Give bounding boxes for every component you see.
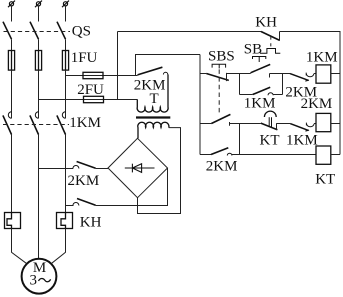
wire phase2 to fuse <box>38 39 40 50</box>
contactor 1KM main pole3 hook <box>62 112 65 118</box>
contact 2KM brake pole2 wire <box>66 205 74 207</box>
contact KH NC tick <box>279 32 281 41</box>
contact 1KM self-hold blade <box>253 87 271 94</box>
diode triangle <box>132 164 141 173</box>
wire self-hold right riser <box>282 74 284 95</box>
wire phase1 top stub <box>11 6 13 22</box>
coil 1KM box <box>316 65 331 83</box>
row A wire SB to interlock <box>270 73 291 75</box>
svg-text:3: 3 <box>30 273 38 289</box>
svg-text:1KM: 1KM <box>306 50 338 66</box>
fuse 1FU pole1 <box>8 51 14 71</box>
wire control top rail left segment <box>118 31 262 33</box>
wire motor lead 3 <box>52 229 66 264</box>
contact 2KM self-hold hook <box>227 153 232 155</box>
thermal relay KH element 1 box <box>5 213 21 229</box>
contact 2KM NC interlock foot <box>305 80 309 81</box>
wire phase1 fuse to 1KM <box>11 70 13 118</box>
transformer T secondary winding <box>138 122 169 138</box>
diode line <box>125 167 155 169</box>
terminal L1 <box>8 1 15 8</box>
button SBS NC blade <box>206 74 228 81</box>
wire to 1KM coil <box>314 73 316 75</box>
svg-text:2KM: 2KM <box>134 78 166 94</box>
thermal relay KH element 2 heater <box>61 213 66 229</box>
wire control riser to top <box>117 32 119 100</box>
contact 1KM NC interlock foot <box>305 130 309 131</box>
QS linkage dashed <box>4 31 71 33</box>
fuse 2FU lower <box>84 96 104 102</box>
button SB bump <box>260 49 280 54</box>
contact 2KM brake pole1 hook <box>73 166 79 169</box>
timer KT umbrella arc <box>264 111 276 117</box>
wire phase2 top stub <box>38 6 40 22</box>
switch QS pole 1 blade <box>3 22 12 40</box>
terminal L3 <box>62 1 69 8</box>
button SB actuator bar <box>253 57 266 60</box>
row B wire 2 <box>277 123 291 125</box>
row C stub <box>200 154 211 156</box>
contactor 1KM main pole2 blade <box>30 115 39 134</box>
contact 2KM NC interlock tick <box>305 73 307 76</box>
svg-text:1KM: 1KM <box>286 132 318 148</box>
contactor 1KM main pole1 hook <box>8 112 11 118</box>
contact 2KM NC interlock cup <box>306 74 313 77</box>
transformer T core <box>136 116 170 118</box>
terminal L2 <box>35 1 42 8</box>
svg-text:KH: KH <box>255 14 277 30</box>
svg-text:1FU: 1FU <box>71 50 98 66</box>
wire phase3 top stub <box>65 6 67 22</box>
contact 2KM brake pole2 hook <box>73 203 79 206</box>
wire 1KM coil to right rail <box>331 73 340 75</box>
wire to 2KM coil <box>314 123 316 125</box>
contact 2KM transformer hook <box>163 72 167 74</box>
row A stub <box>200 73 206 75</box>
timer KT umbrella stems <box>269 117 271 127</box>
contact 1KM NC interlock cup <box>307 124 314 127</box>
fuse 2FU upper <box>83 72 103 78</box>
wire 2KM pole1 to rectifier <box>96 168 108 170</box>
svg-text:2KM: 2KM <box>206 159 238 175</box>
row B wire <box>230 123 261 125</box>
contact 2KM transformer blade <box>138 67 163 75</box>
wire rectifier bottom vertex loop <box>138 128 181 214</box>
motor M circle <box>22 259 57 294</box>
row B stub <box>200 123 211 125</box>
button SBS dashed link <box>218 69 220 113</box>
wire phase2 fuse to 1KM <box>38 70 40 118</box>
svg-text:KT: KT <box>260 132 280 148</box>
row A wire to SB <box>227 73 251 75</box>
transformer T primary winding <box>137 75 168 113</box>
wire self-hold left drop <box>239 74 241 95</box>
fuse 1FU pole3 <box>62 51 68 71</box>
timer KT contact blade <box>261 123 278 130</box>
button SBS NO blade <box>211 114 230 123</box>
svg-text:1KM: 1KM <box>69 115 101 131</box>
contact 1KM self-hold hook <box>268 93 273 96</box>
timer KT contact tick <box>276 123 278 130</box>
wire 2KM coil to right rail <box>331 123 340 125</box>
wire phase3 fuse to 1KM <box>65 70 67 118</box>
contactor 1KM main pole2 hook <box>35 112 38 118</box>
thermal relay KH element 1 heater <box>7 213 12 229</box>
wire motor lead 1 <box>12 229 27 264</box>
contact 1KM NC interlock tick <box>305 123 307 126</box>
svg-text:2KM: 2KM <box>68 173 100 189</box>
svg-text:SBS: SBS <box>208 49 235 65</box>
svg-text:2KM: 2KM <box>301 96 333 112</box>
svg-text:QS: QS <box>72 23 91 39</box>
contact KH NC blade <box>261 32 280 41</box>
wire phase2 down <box>38 135 40 259</box>
button SB tick <box>269 74 271 78</box>
contact 2KM brake pole1 wire <box>39 168 74 170</box>
button SB blade <box>251 64 271 72</box>
wire control tap 1 <box>66 75 138 77</box>
button SB actuator stem <box>258 57 260 63</box>
wire phase1 to fuse <box>11 39 13 50</box>
1KM linkage dashed <box>3 124 69 126</box>
button SBS NO tick <box>229 122 231 126</box>
thermal relay KH element 2 box <box>57 213 73 229</box>
contact 2KM self-hold blade <box>211 148 228 155</box>
wire control top rail right segment <box>280 32 341 155</box>
svg-text:KH: KH <box>80 214 102 230</box>
wire phase1 down <box>11 135 13 213</box>
button SB plunger dashed link to KH <box>270 36 272 48</box>
wire self-hold right <box>273 94 282 96</box>
fuse 1FU pole2 <box>35 51 41 71</box>
contactor 1KM main pole3 blade <box>57 115 66 134</box>
svg-text:1KM: 1KM <box>244 96 276 112</box>
contact 2KM NC interlock blade <box>290 74 308 81</box>
button SBS NC tick <box>226 73 228 81</box>
contact 2KM brake pole2 blade <box>77 199 96 206</box>
button SBS stem <box>218 64 220 68</box>
contact 2KM brake pole1 blade <box>77 162 96 169</box>
wire self-hold branch <box>240 94 253 96</box>
wire left control rail feed <box>136 55 201 76</box>
svg-text:SB: SB <box>244 42 262 58</box>
contactor 1KM main pole1 blade <box>3 115 12 134</box>
button SBS bracket <box>212 64 226 67</box>
wire left control rail <box>199 55 201 155</box>
coil 2KM box <box>316 113 331 131</box>
contact 1KM NC interlock blade <box>290 124 308 131</box>
wire phase3 down <box>65 135 67 213</box>
wire KT coil to right rail <box>331 154 340 156</box>
svg-text:KT: KT <box>315 172 335 188</box>
wire row B to row C junction drop <box>239 124 241 155</box>
wire control tap 2 <box>39 99 138 101</box>
wire 2KM pole2 to rectifier right vertex <box>96 168 168 206</box>
row C wire <box>232 154 316 156</box>
diode cathode bar <box>131 164 133 173</box>
rectifier bridge diamond <box>108 138 168 197</box>
switch QS pole 2 blade <box>30 22 39 40</box>
wire phase3 to fuse <box>65 39 67 50</box>
switch QS pole 3 blade <box>57 22 66 40</box>
coil KT box <box>316 146 331 164</box>
